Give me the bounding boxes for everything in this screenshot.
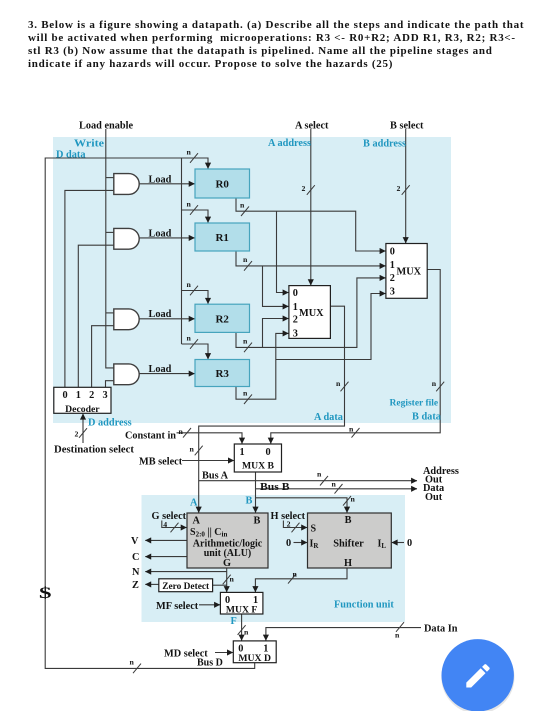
bus width n on A data bbox=[336, 379, 349, 391]
svg-text:G select: G select bbox=[152, 511, 187, 522]
svg-text:n: n bbox=[293, 570, 298, 579]
svg-text:n: n bbox=[190, 445, 195, 454]
wire Data In into MUX D input 1 bbox=[266, 628, 421, 641]
bus width n on Bus D bbox=[130, 658, 142, 674]
bus width 2 on H select bbox=[287, 520, 300, 533]
svg-text:MUX F: MUX F bbox=[226, 605, 258, 616]
bus width n on A data vertical bbox=[190, 445, 203, 456]
wire D address into Decoder bbox=[82, 414, 84, 443]
svg-text:0: 0 bbox=[390, 246, 395, 257]
svg-text:2: 2 bbox=[397, 184, 401, 193]
wire R2 output branch to MUX A input 2 bbox=[263, 319, 289, 348]
bus width n on H output bbox=[288, 570, 298, 584]
register R2 bbox=[195, 304, 250, 332]
svg-text:0: 0 bbox=[266, 447, 271, 458]
svg-text:n: n bbox=[130, 658, 135, 667]
wire stub to AND gate 1 top input bbox=[106, 177, 114, 179]
wire R0 output branch to MUX A input 0 bbox=[277, 211, 289, 292]
svg-text:MB select: MB select bbox=[139, 456, 183, 467]
bus width n on D data branch R0 bbox=[187, 148, 199, 163]
bus width 2 on D address bbox=[75, 428, 88, 438]
wire AND gate 4 output Load to R3 bbox=[139, 373, 194, 375]
wire Shifter output H into MUX F input 1 bbox=[255, 568, 347, 592]
wire D data branch into R1 bbox=[182, 210, 209, 223]
bus width n on Data In bbox=[395, 622, 404, 639]
svg-text:V: V bbox=[131, 536, 139, 547]
svg-text:R3: R3 bbox=[215, 368, 229, 380]
svg-text:MUX D: MUX D bbox=[238, 653, 271, 664]
svg-text:0: 0 bbox=[293, 288, 298, 299]
edit FAB button bbox=[441, 639, 514, 711]
wire decoder output 0 to AND gate 1 bbox=[65, 190, 114, 387]
svg-text:R2: R2 bbox=[215, 313, 229, 325]
wire Bus B branch into Shifter input B bbox=[256, 498, 348, 513]
bus width n on R3 output bbox=[243, 389, 252, 405]
wire AND gate 3 output Load to R2 bbox=[139, 318, 194, 320]
wire MB select into MUX B(const) bbox=[182, 460, 234, 462]
svg-text:Function unit: Function unit bbox=[334, 599, 394, 610]
wire status Z from Zero Detect bbox=[145, 583, 159, 585]
register R1 bbox=[195, 223, 250, 251]
svg-text:n: n bbox=[187, 200, 192, 209]
svg-text:D address: D address bbox=[88, 418, 132, 429]
register R3 bbox=[195, 360, 250, 387]
svg-text:Data In: Data In bbox=[424, 623, 458, 634]
svg-text:A: A bbox=[190, 498, 198, 509]
svg-text:n: n bbox=[243, 389, 248, 398]
bus width n on D data branch R3 bbox=[187, 334, 199, 349]
decoder bbox=[54, 387, 111, 413]
svg-text:2: 2 bbox=[302, 184, 306, 193]
bus width 2 on B select bbox=[397, 184, 410, 195]
wire ALU status V bbox=[145, 539, 187, 541]
svg-text:n: n bbox=[240, 201, 245, 210]
svg-text:B select: B select bbox=[390, 121, 424, 132]
svg-text:Write: Write bbox=[74, 139, 104, 150]
mux F bbox=[220, 592, 263, 614]
wire D data distribution vertical bbox=[181, 158, 183, 344]
wire ALU status C bbox=[145, 556, 187, 558]
svg-text:MF select: MF select bbox=[156, 601, 199, 612]
svg-text:n: n bbox=[395, 631, 400, 640]
svg-text:n: n bbox=[230, 575, 235, 584]
bus width n on Constant in bbox=[179, 427, 192, 438]
svg-text:2: 2 bbox=[287, 520, 291, 529]
bus width n on D data branch R1 bbox=[187, 200, 199, 215]
svg-text:2: 2 bbox=[75, 430, 79, 439]
svg-text:n: n bbox=[179, 427, 184, 436]
bus width n on Bus A bbox=[317, 470, 328, 486]
ALU U1 bbox=[187, 513, 268, 568]
svg-text:A address: A address bbox=[268, 138, 311, 149]
and-gate 4 (Load R3) bbox=[114, 364, 139, 385]
wire AND gate 2 output Load to R1 bbox=[139, 237, 194, 239]
svg-text:1: 1 bbox=[293, 302, 298, 313]
svg-text:Load: Load bbox=[149, 364, 172, 375]
register R0 bbox=[195, 169, 250, 198]
svg-text:B data: B data bbox=[412, 412, 441, 423]
wire A select into MUX A bbox=[310, 129, 312, 285]
wire MUX B output B data down and into MUX B(const) input 0 bbox=[271, 270, 440, 444]
svg-text:0: 0 bbox=[407, 538, 412, 549]
svg-text:1: 1 bbox=[240, 447, 245, 458]
function unit background region bbox=[142, 495, 406, 622]
bus width n on R0 output bbox=[240, 201, 249, 217]
wire Bus A to Address Out bbox=[199, 480, 417, 482]
bus width n on Bus B bbox=[332, 480, 343, 494]
svg-text:A data: A data bbox=[314, 412, 343, 423]
svg-text:n: n bbox=[351, 495, 356, 504]
svg-text:n: n bbox=[349, 425, 354, 434]
svg-text:Bus A: Bus A bbox=[202, 471, 229, 482]
wire MD select into MUX D bbox=[215, 652, 233, 654]
svg-text:3: 3 bbox=[390, 287, 395, 298]
svg-text:R0: R0 bbox=[215, 179, 229, 191]
svg-text:3: 3 bbox=[103, 390, 108, 401]
wire D data branch into R3 bbox=[182, 344, 209, 359]
wire ALU output G into MUX F input 0 bbox=[226, 568, 228, 592]
svg-text:Constant in: Constant in bbox=[125, 431, 176, 442]
wire stub to AND gate 3 top input bbox=[106, 312, 114, 314]
svg-text:Zero Detect: Zero Detect bbox=[162, 582, 210, 592]
wire R1 output to MUX B input 1 bbox=[236, 251, 386, 266]
wire H select into Shifter bbox=[283, 521, 307, 528]
wire R3 output to MUX A input 3 bbox=[236, 333, 289, 399]
mux D bbox=[233, 641, 276, 663]
wire Zero Detect tap on G line bbox=[213, 584, 227, 586]
svg-text:n: n bbox=[187, 334, 192, 343]
wire Constant in to MUX B(const) input 1 bbox=[177, 433, 243, 444]
svg-text:Bus D: Bus D bbox=[197, 658, 223, 669]
svg-text:n: n bbox=[243, 255, 248, 264]
bus width n on R2 output bbox=[243, 337, 252, 353]
svg-text:G: G bbox=[223, 558, 231, 569]
svg-text:C: C bbox=[132, 552, 139, 563]
svg-text:2: 2 bbox=[89, 390, 94, 401]
wire D data branch into R2 bbox=[182, 291, 209, 304]
svg-text:Destination select: Destination select bbox=[54, 445, 135, 456]
svg-text:n: n bbox=[336, 379, 341, 388]
svg-text:MUX B: MUX B bbox=[242, 461, 275, 472]
wire Load enable vertical down to AND gate 4 top input bbox=[106, 129, 114, 368]
wire status N from G line bbox=[145, 571, 226, 573]
wire AND gate 1 output Load to R0 bbox=[139, 183, 194, 185]
svg-text:R1: R1 bbox=[215, 232, 228, 244]
svg-text:B: B bbox=[254, 516, 261, 527]
svg-text:n: n bbox=[432, 379, 437, 388]
and-gate 1 (Load R0) bbox=[114, 174, 139, 195]
wire stub to AND gate 2 top input bbox=[106, 231, 114, 233]
bus width n on B data bbox=[432, 379, 445, 391]
wire R2 output to MUX B input 2 bbox=[236, 278, 386, 348]
svg-text:2: 2 bbox=[390, 273, 395, 284]
svg-text:n: n bbox=[243, 337, 248, 346]
bus width 2 on A select bbox=[302, 184, 315, 195]
svg-text:0: 0 bbox=[63, 390, 68, 401]
svg-text:Bus B: Bus B bbox=[260, 482, 290, 493]
svg-text:S: S bbox=[311, 524, 317, 535]
svg-text:n: n bbox=[244, 628, 249, 637]
svg-text:1: 1 bbox=[390, 260, 395, 271]
svg-text:0: 0 bbox=[286, 538, 291, 549]
wire decoder output 3 to AND gate 4 bbox=[106, 381, 114, 388]
bus width n on R1 output bbox=[243, 255, 252, 271]
wire MUX F output F into MUX D input 0 bbox=[241, 614, 243, 641]
bus width n on G output bbox=[223, 575, 235, 585]
svg-text:n: n bbox=[317, 470, 322, 479]
mux B constant-select bbox=[234, 444, 281, 472]
and-gate 3 (Load R2) bbox=[114, 309, 139, 330]
svg-text:MUX: MUX bbox=[299, 308, 324, 319]
svg-text:Decoder: Decoder bbox=[65, 404, 100, 415]
bus width n on F output bbox=[238, 625, 249, 636]
svg-text:B address: B address bbox=[363, 139, 406, 150]
svg-text:B: B bbox=[345, 515, 352, 526]
svg-text:n: n bbox=[187, 280, 192, 289]
svg-text:1: 1 bbox=[76, 390, 81, 401]
wire G select into ALU bbox=[162, 521, 187, 528]
wire 0 into Shifter IR bbox=[294, 542, 308, 544]
wire R3 output branch to MUX B input 3 bbox=[276, 294, 386, 360]
svg-text:4: 4 bbox=[163, 520, 167, 529]
bus width n on D data branch R2 bbox=[187, 280, 199, 295]
wire B select into MUX B bbox=[405, 129, 407, 243]
svg-text:$: $ bbox=[39, 585, 52, 602]
svg-text:N: N bbox=[132, 567, 140, 578]
svg-text:D data: D data bbox=[56, 149, 85, 160]
svg-text:MUX: MUX bbox=[397, 267, 422, 278]
svg-text:Z: Z bbox=[132, 580, 139, 591]
svg-text:2: 2 bbox=[293, 314, 298, 325]
mux B (register file B port) bbox=[386, 244, 427, 299]
svg-text:3: 3 bbox=[293, 329, 298, 340]
and-gate 2 (Load R1) bbox=[114, 228, 139, 249]
mux A (register file A port) bbox=[289, 286, 331, 339]
wire decoder output 1 to AND gate 2 bbox=[78, 245, 114, 387]
svg-text:Load: Load bbox=[149, 228, 172, 239]
bus width n on B data horizontal bbox=[349, 425, 360, 438]
zero detect bbox=[159, 579, 213, 592]
svg-text:Out: Out bbox=[425, 492, 443, 503]
wire MUX B(const) output Bus B into ALU input B bbox=[255, 472, 257, 513]
wire MF select into MUX F bbox=[199, 604, 220, 606]
wire decoder output 2 to AND gate 3 bbox=[92, 326, 114, 388]
svg-text:B: B bbox=[246, 496, 253, 507]
wire R1 output branch to MUX A input 1 bbox=[263, 266, 289, 307]
svg-text:H: H bbox=[344, 558, 352, 569]
svg-text:n: n bbox=[187, 148, 192, 157]
shifter U2 bbox=[308, 513, 392, 568]
wire Bus B to Data Out bbox=[256, 488, 418, 490]
wire R0 output to MUX B input 0 bbox=[236, 198, 386, 251]
svg-text:n: n bbox=[332, 480, 337, 489]
wire 0 into Shifter IL bbox=[392, 542, 404, 544]
svg-text:Shifter: Shifter bbox=[333, 539, 364, 550]
svg-text:Load enable: Load enable bbox=[79, 121, 133, 132]
wire Bus D write-back (MUX D output, bottom, left edge, up to D data) bbox=[45, 158, 255, 668]
svg-text:Load: Load bbox=[149, 309, 172, 320]
svg-text:Load: Load bbox=[149, 174, 172, 185]
svg-text:A select: A select bbox=[295, 121, 329, 132]
svg-text:A: A bbox=[193, 516, 201, 527]
bus width 4 on G select bbox=[163, 520, 178, 533]
bus width n on shifter B branch bbox=[343, 495, 356, 506]
wire MUX A output A data down, left, into ALU input A bbox=[199, 306, 345, 512]
svg-text:Register file: Register file bbox=[390, 399, 439, 409]
svg-text:F: F bbox=[231, 616, 237, 627]
register file background region bbox=[53, 137, 451, 423]
